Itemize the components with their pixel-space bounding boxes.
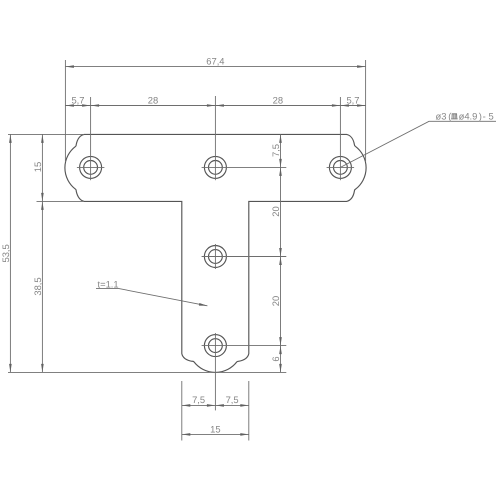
extension line bar bottom (left) [37,200,85,202]
dimension 15 / 38,5 [41,134,43,372]
center line hole 2 [214,96,216,180]
dimension 15 (bottom) [182,433,249,435]
extension line plate top (left) [8,133,84,135]
svg-text:15: 15 [32,162,43,172]
dimension 67,4 [65,66,365,68]
svg-text:t=1.1: t=1.1 [98,278,119,289]
svg-text:7,5: 7,5 [270,144,281,157]
extension line right end [365,60,367,162]
dimension 53,5 [9,134,11,372]
svg-text:28: 28 [273,94,283,105]
center line hole 3 [339,97,341,180]
svg-text:15: 15 [210,423,220,434]
plate outline: T-shaped bracket [65,134,366,372]
svg-text:5: 5 [489,111,494,122]
svg-text:7,5: 7,5 [192,394,205,405]
dimension row 5,7 / 28 / 28 / 5,7 [65,105,365,107]
svg-text:20: 20 [270,296,281,306]
svg-text:(: ( [448,111,452,122]
svg-text:ø3: ø3 [436,111,447,122]
extension line left end [64,60,66,162]
extension line stem right (bottom) [248,381,250,441]
hole 3 (top-right) [329,156,351,178]
svg-text:6: 6 [270,356,281,361]
svg-text:ø4.9: ø4.9 [459,111,478,122]
svg-text:53,5: 53,5 [0,244,11,262]
extension line hole row (right) [202,166,287,168]
svg-text:-: - [483,111,486,122]
hole 1 (top-left) ø3 countersunk [80,156,102,178]
center line hole 1 [90,97,92,180]
hole 2 (top-center) [204,156,226,178]
extension line hole 5 row (right) [202,345,287,347]
hole 4 (stem middle) [204,246,226,268]
svg-text:28: 28 [148,94,158,105]
svg-text:5,7: 5,7 [71,94,84,105]
extension line plate bottom (long) [8,371,286,373]
leader hole callout ø3(sara ø4.9)-5 [340,121,496,167]
hole 5 (stem bottom) [204,335,226,357]
svg-text:5,7: 5,7 [346,94,359,105]
extension line stem left (bottom) [181,381,183,441]
svg-text:20: 20 [270,206,281,216]
center line stem bottom [214,333,216,410]
svg-text:38,5: 38,5 [32,277,43,295]
dimension 7,5 / 7,5 [182,404,249,406]
svg-text:7,5: 7,5 [226,394,239,405]
svg-text:): ) [479,111,482,122]
svg-text:67,4: 67,4 [206,55,224,66]
sara (countersink) kanji glyph [451,114,458,119]
dimension 7,5 / 20 / 20 / 6 [280,134,282,372]
